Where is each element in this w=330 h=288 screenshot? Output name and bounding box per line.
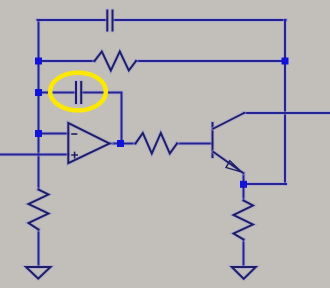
wire: emitter node to right rail (244, 182, 287, 186)
wire: row2 left segment to R1 (39, 59, 95, 63)
op-amp U1 minus symbol (72, 133, 77, 135)
node: op-amp output junction (117, 140, 124, 147)
transistor Q1 collector diagonal (214, 113, 245, 129)
wire: op-amp output to node (109, 142, 122, 146)
transistor Q1 emitter arrow (226, 161, 242, 172)
wire: node to R2 (121, 142, 136, 146)
node: left rail / row2 junction (35, 58, 42, 65)
wire: R3 bottom to ground (37, 230, 41, 268)
wire: R2 to transistor base (177, 142, 213, 146)
transistor Q1 emitter diagonal (214, 152, 244, 173)
wire: top horizontal left of C1 (38, 18, 107, 22)
wire: right vertical rail (283, 20, 287, 184)
node: left rail / inverting input junction (35, 130, 42, 137)
wire: emitter down to node (242, 173, 246, 185)
wire: R4 bottom to ground (242, 240, 246, 268)
wire: row3 right segment from C2 with corner down to op-amp output node (82, 93, 122, 144)
annotation: yellow highlight ellipse around C2 (50, 73, 106, 111)
resistor R1 (row2 horizontal) (95, 52, 137, 71)
wire: inverting input (39, 132, 69, 136)
capacitor C1 (top) plates (107, 11, 112, 31)
resistor R3 (bottom left vertical) (29, 190, 49, 230)
op-amp U1 triangle (68, 123, 109, 163)
wire: left vertical rail (37, 20, 41, 190)
node: emitter junction (240, 181, 247, 188)
wire: collector to right edge (244, 111, 330, 115)
wire: top horizontal right of C1 (114, 18, 287, 22)
resistor R4 (bottom right vertical) (234, 201, 254, 240)
node: left rail / C2 junction (35, 89, 42, 96)
resistor R2 (base series) (136, 133, 178, 154)
node: right rail / row2 junction (282, 58, 289, 65)
capacitor C2 (circled) plates (76, 82, 81, 103)
transistor Q1 base bar (211, 123, 215, 157)
wire: row3 left segment to C2 (39, 91, 76, 95)
wire: non-inverting input from left edge (0, 153, 69, 157)
op-amp U1 plus symbol (72, 152, 77, 157)
ground symbol left (26, 267, 51, 279)
wire: row2 right segment from R1 to right rail (136, 59, 285, 63)
ground symbol right (232, 267, 256, 279)
wire: emitter node down to R4 (242, 184, 246, 201)
